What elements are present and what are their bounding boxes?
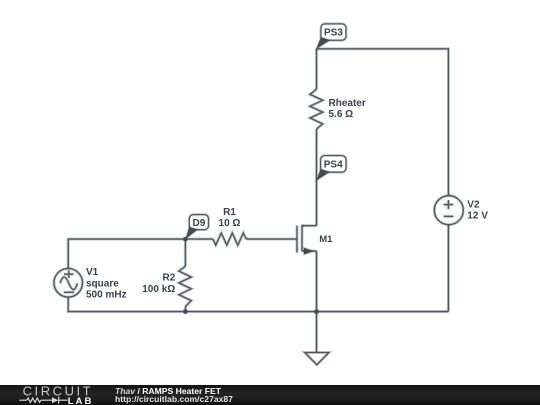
svg-text:12 V: 12 V: [467, 210, 488, 221]
svg-text:R2: R2: [163, 273, 176, 284]
svg-text:D9: D9: [193, 218, 206, 229]
svg-text:square: square: [86, 278, 119, 289]
svg-text:Rheater: Rheater: [329, 98, 366, 109]
svg-text:V2: V2: [467, 199, 480, 210]
svg-text:500 mHz: 500 mHz: [86, 290, 127, 301]
svg-text:10 Ω: 10 Ω: [219, 218, 241, 229]
svg-text:V1: V1: [86, 267, 99, 278]
svg-text:LAB: LAB: [68, 396, 94, 405]
svg-text:PS3: PS3: [324, 28, 343, 39]
svg-text:100 kΩ: 100 kΩ: [142, 284, 175, 295]
svg-text:5.6 Ω: 5.6 Ω: [329, 109, 354, 120]
svg-text:http://circuitlab.com/c27ax87: http://circuitlab.com/c27ax87: [115, 394, 233, 404]
svg-text:M1: M1: [319, 234, 333, 245]
svg-text:R1: R1: [223, 207, 236, 218]
svg-text:PS4: PS4: [324, 160, 343, 171]
